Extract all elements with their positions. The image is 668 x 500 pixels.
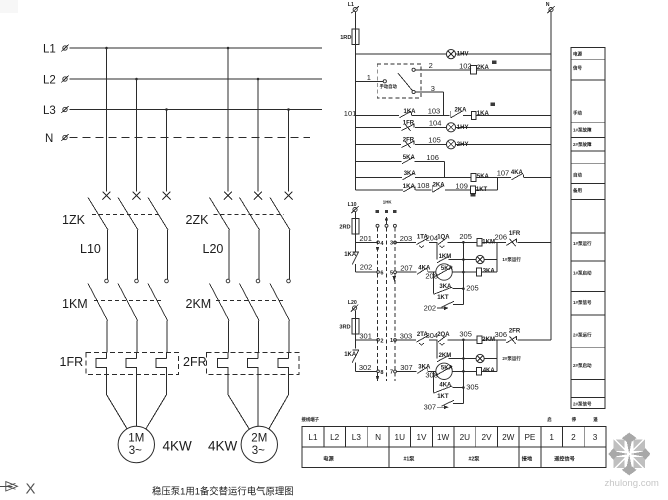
wire rung 201 — [356, 241, 377, 243]
svg-text:101: 101 — [344, 109, 357, 118]
wire rung 303 — [396, 339, 416, 341]
lamp 2HY — [446, 140, 455, 149]
svg-text:105: 105 — [428, 136, 441, 145]
contact 1KA rung 108 — [403, 186, 414, 192]
relay coil 4KA — [477, 367, 482, 375]
selector cam arrow b — [393, 276, 397, 281]
svg-text:L1: L1 — [308, 433, 318, 442]
svg-text:202: 202 — [360, 262, 373, 271]
contact 1KT time contact — [442, 400, 455, 406]
svg-text:4KW: 4KW — [163, 439, 193, 454]
svg-text:信号: 信号 — [573, 65, 582, 72]
svg-text:2KA: 2KA — [477, 65, 490, 71]
contactor coil 2KM — [477, 336, 482, 344]
svg-text:#1泵: #1泵 — [404, 454, 416, 462]
svg-text:205: 205 — [459, 232, 472, 241]
svg-text:5KA: 5KA — [441, 365, 454, 371]
svg-text:1QA: 1QA — [437, 234, 450, 240]
wire node column — [462, 340, 464, 404]
circuit breaker 2ZK — [210, 192, 293, 280]
junction node 305 — [462, 339, 465, 342]
wire rung 103 — [356, 115, 400, 117]
svg-text:2QA: 2QA — [437, 332, 450, 338]
junction node 205 — [462, 241, 465, 244]
wire rung 307 — [396, 370, 416, 372]
svg-text:3KA: 3KA — [404, 171, 417, 177]
wire lamp row — [449, 358, 477, 360]
contact 4KA rung 207 — [417, 268, 427, 274]
svg-text:1KA: 1KA — [404, 109, 417, 115]
tiny note mark 2 — [490, 102, 495, 106]
contactor coil 1KM — [477, 238, 482, 246]
svg-text:307: 307 — [424, 403, 437, 412]
wire node column — [462, 242, 464, 304]
svg-text:1U: 1U — [395, 433, 406, 442]
wire rung 203 — [396, 241, 416, 243]
lamp 1HV — [446, 50, 455, 59]
svg-text:1V: 1V — [416, 433, 427, 442]
lamp 1HY — [446, 123, 455, 132]
contact 5KA rung 106 — [402, 157, 414, 163]
svg-text:遥控信号: 遥控信号 — [554, 454, 575, 462]
pressure controller 5KA circle — [436, 363, 452, 379]
selector 1HK linkage column 1 (dashed) — [377, 227, 379, 381]
terminal L1 — [63, 46, 67, 50]
selector cam arrow c — [376, 376, 380, 381]
svg-text:103: 103 — [428, 107, 441, 116]
svg-text:1ZK: 1ZK — [62, 213, 86, 227]
wire motor 1M leads — [107, 375, 167, 430]
wire phase drops to breaker 1ZK — [106, 48, 108, 191]
wire rung 104 — [356, 126, 402, 128]
svg-text:1KT: 1KT — [437, 295, 449, 301]
junction node rung 207 — [462, 271, 465, 274]
terminal N — [63, 135, 67, 139]
terminal strip table grid — [302, 426, 606, 467]
svg-text:L2: L2 — [43, 75, 56, 87]
wire L2 bus — [70, 78, 323, 80]
wire right column — [496, 340, 498, 372]
function description table — [571, 48, 605, 409]
svg-text:X: X — [26, 481, 36, 498]
selector contact pin 1 — [394, 339, 397, 342]
wire rung 302 — [356, 370, 377, 372]
svg-text:2W: 2W — [502, 433, 515, 442]
svg-text:L1: L1 — [348, 2, 354, 8]
svg-text:107: 107 — [497, 169, 510, 178]
svg-text:1#泵故障: 1#泵故障 — [573, 127, 592, 134]
svg-text:2HY: 2HY — [457, 142, 469, 148]
selector 1HK linkage column 2 (dashed) — [386, 227, 388, 381]
thermal relay 2FR — [207, 353, 300, 375]
terminal N control — [549, 8, 553, 12]
terminal L2 — [63, 77, 67, 81]
svg-text:N: N — [375, 433, 381, 442]
wire rung voltage lamp — [356, 53, 447, 55]
svg-text:2KA: 2KA — [433, 182, 446, 188]
switch pin 3 contact — [412, 90, 415, 93]
svg-text:2V: 2V — [482, 433, 493, 442]
wire L1 to fuse 1RD — [355, 12, 357, 29]
wire bottom row — [453, 303, 463, 305]
selector contact col1 rung 201 — [377, 241, 380, 244]
pressure controller 5KA circle — [436, 264, 452, 280]
switch pin 2 contact — [412, 68, 415, 71]
svg-text:2#泵启动: 2#泵启动 — [573, 362, 592, 369]
wire rung 207 — [396, 271, 416, 273]
svg-text:2RD: 2RD — [339, 225, 350, 231]
svg-text:N: N — [45, 133, 53, 145]
svg-text:稳压泵1用1备交替运行电气原理图: 稳压泵1用1备交替运行电气原理图 — [152, 486, 294, 497]
svg-text:8: 8 — [380, 370, 383, 376]
X axis arrow — [0, 482, 18, 491]
svg-text:3: 3 — [390, 241, 393, 247]
svg-text:3KA: 3KA — [483, 269, 496, 275]
watermark logo — [608, 433, 650, 476]
switch pin 1 contact — [383, 80, 386, 83]
function table labels — [572, 51, 592, 408]
contact 2QA — [438, 336, 447, 342]
wire bottom row — [453, 402, 463, 404]
wire bus to rung 202 — [355, 264, 357, 272]
thermal relay 1FR — [86, 353, 179, 375]
svg-text:2ZK: 2ZK — [186, 213, 210, 227]
switch blade thrown to pin 3 — [398, 73, 413, 91]
svg-text:1RD: 1RD — [340, 35, 351, 41]
svg-text:zhulong.com: zhulong.com — [605, 478, 659, 489]
wire bus to rung 302 — [355, 362, 357, 371]
svg-text:1KM: 1KM — [482, 239, 495, 245]
svg-text:1FR: 1FR — [60, 355, 84, 369]
svg-text:1KT: 1KT — [476, 187, 488, 193]
svg-text:203: 203 — [400, 234, 413, 243]
svg-text:启: 启 — [547, 416, 551, 423]
wire switch pin 3 to rung 103 — [415, 91, 443, 93]
svg-text:1HY: 1HY — [457, 125, 469, 131]
svg-text:L20: L20 — [203, 242, 224, 256]
svg-text:2M: 2M — [251, 433, 267, 445]
svg-text:N: N — [546, 2, 550, 8]
wire phase drops to breaker 2ZK — [227, 48, 229, 191]
selector contact col1 rung 301 — [377, 339, 380, 342]
contact 1QA — [438, 238, 447, 244]
svg-text:3: 3 — [593, 433, 598, 442]
svg-text:2FR: 2FR — [403, 137, 415, 143]
contact 1FR NC — [402, 124, 415, 130]
svg-text:电源: 电源 — [573, 51, 582, 58]
svg-text:205: 205 — [466, 284, 479, 293]
svg-text:1: 1 — [549, 433, 554, 442]
tiny note mark — [492, 61, 497, 65]
svg-text:1M: 1M — [128, 433, 144, 445]
selector cam arrow a — [376, 247, 380, 252]
svg-text:5: 5 — [390, 270, 393, 276]
wire rung 301 — [356, 339, 377, 341]
contact 1KA rung 103 — [400, 111, 412, 117]
svg-text:2#泵运行: 2#泵运行 — [573, 332, 592, 339]
svg-text:1#泵运行: 1#泵运行 — [573, 240, 592, 247]
contact 1FR NC thermal — [506, 239, 516, 245]
svg-text:2#泵运行: 2#泵运行 — [502, 355, 521, 362]
svg-text:1: 1 — [390, 338, 393, 344]
svg-text:302: 302 — [359, 363, 372, 372]
svg-text:1#泵启动: 1#泵启动 — [573, 270, 592, 277]
svg-text:1KM: 1KM — [62, 297, 88, 311]
selector 1HK position marks — [376, 210, 380, 213]
selector switch 1SA dashed box — [377, 64, 421, 98]
svg-text:2KM: 2KM — [482, 337, 495, 343]
svg-text:3~: 3~ — [252, 445, 265, 457]
terminal L3 — [63, 107, 67, 111]
wire control left bus 101 — [355, 45, 357, 190]
wire motor 2M leads — [228, 375, 289, 430]
motor 1M — [118, 426, 154, 462]
svg-text:1KA: 1KA — [477, 111, 490, 117]
wire lower row 305 — [452, 387, 463, 389]
svg-text:308: 308 — [425, 371, 438, 380]
contactor 1KM main poles — [88, 279, 168, 353]
svg-text:遥: 遥 — [593, 416, 598, 423]
selector 1HK handle arrow — [386, 218, 388, 225]
svg-text:电源: 电源 — [323, 454, 334, 462]
junction node rung 307 — [462, 370, 465, 373]
contact 2FR NC — [402, 141, 415, 147]
svg-text:1HV: 1HV — [457, 52, 469, 58]
svg-text:1KA: 1KA — [344, 252, 357, 258]
svg-text:L2: L2 — [330, 433, 340, 442]
circuit breaker 1ZK — [88, 192, 171, 280]
svg-text:306: 306 — [495, 330, 508, 339]
lamp 2HR running indicator — [476, 354, 484, 362]
svg-text:5KA: 5KA — [441, 266, 454, 272]
svg-text:5KA: 5KA — [477, 174, 490, 180]
pump 1 control block — [396, 231, 551, 313]
svg-text:108: 108 — [417, 181, 430, 190]
svg-text:4KA: 4KA — [483, 368, 496, 374]
motor 2M — [241, 426, 277, 462]
svg-text:备用: 备用 — [572, 187, 582, 194]
svg-text:接线端子: 接线端子 — [301, 416, 320, 423]
fuse 2RD — [352, 219, 359, 235]
svg-text:206: 206 — [495, 232, 508, 241]
svg-text:接地: 接地 — [522, 454, 533, 462]
svg-text:2: 2 — [380, 338, 383, 344]
terminal L10 — [353, 208, 357, 212]
svg-text:305: 305 — [466, 382, 479, 391]
svg-text:PE: PE — [524, 433, 535, 442]
svg-text:2: 2 — [571, 433, 576, 442]
svg-text:1HK: 1HK — [383, 200, 393, 205]
svg-text:2#泵故障: 2#泵故障 — [573, 141, 592, 148]
wire rung 107 — [356, 177, 403, 179]
svg-text:2FR: 2FR — [509, 329, 521, 335]
svg-text:3KA: 3KA — [439, 284, 452, 290]
svg-text:5KA: 5KA — [403, 155, 416, 161]
svg-text:2: 2 — [429, 61, 433, 70]
wire lower row 205 — [452, 288, 463, 290]
svg-text:2#泵信号: 2#泵信号 — [573, 401, 592, 408]
wire 109 up to 107 — [497, 178, 499, 190]
svg-text:2U: 2U — [460, 433, 471, 442]
svg-text:102: 102 — [459, 61, 472, 70]
selector 1HK linkage column 3 (dashed) — [394, 227, 396, 381]
svg-text:207: 207 — [400, 264, 413, 273]
contact 2KA NC rung 103 — [449, 111, 451, 118]
svg-text:208: 208 — [425, 271, 438, 280]
wire lamp row — [449, 259, 477, 261]
svg-text:1FR: 1FR — [509, 231, 521, 237]
svg-text:停: 停 — [572, 416, 577, 423]
contact 1KT time contact — [442, 301, 455, 307]
svg-text:L3: L3 — [352, 433, 362, 442]
wire right column — [496, 242, 498, 272]
contact 4KA rung 107 — [511, 173, 523, 179]
svg-text:305: 305 — [459, 330, 472, 339]
svg-text:1KA: 1KA — [403, 184, 416, 190]
wire lamp row right — [484, 358, 497, 360]
svg-text:L3: L3 — [43, 105, 56, 117]
svg-text:301: 301 — [359, 331, 372, 340]
svg-text:L10: L10 — [80, 242, 101, 256]
contact 1TA time-delay — [417, 238, 429, 244]
selector contact pin 7 — [394, 370, 397, 373]
wire N bus (dashed) — [70, 137, 311, 139]
wire rung 105 — [356, 143, 402, 145]
contact 3KA lower — [434, 287, 453, 294]
wire branch to contact 3KA — [433, 272, 435, 294]
lamp 1HR running indicator — [476, 255, 484, 263]
contactor 2KM main poles — [210, 279, 291, 353]
wire L10 to fuse 2RD — [355, 212, 357, 218]
svg-text:1#泵运行: 1#泵运行 — [502, 256, 521, 263]
svg-text:1KT: 1KT — [437, 394, 449, 400]
contact 3KA rung 107 — [403, 173, 415, 179]
svg-text:L1: L1 — [43, 44, 56, 56]
svg-text:1#泵信号: 1#泵信号 — [573, 299, 592, 306]
svg-text:3~: 3~ — [129, 445, 142, 457]
terminal L1 control — [353, 8, 357, 12]
fuse 3RD — [352, 318, 359, 334]
wire rung 202 — [356, 271, 377, 273]
terminal strip row 2 labels — [323, 454, 575, 462]
svg-text:自动: 自动 — [573, 172, 582, 179]
selector contact pin 5 — [394, 271, 397, 274]
relay coil 1KA — [471, 111, 476, 119]
svg-text:1FR: 1FR — [403, 120, 415, 126]
pump 2 control block — [396, 329, 551, 412]
svg-text:4KA: 4KA — [439, 383, 452, 389]
selector contact pin 3 — [394, 241, 397, 244]
svg-text:202: 202 — [424, 304, 437, 313]
wire L3 bus — [70, 109, 323, 111]
relay coil 3KA — [477, 268, 482, 276]
svg-text:4KA: 4KA — [511, 170, 524, 176]
wire self-hold branch 2KM aux — [436, 340, 438, 359]
contact 2KA NC rung 109 — [431, 185, 433, 192]
svg-text:109: 109 — [455, 182, 468, 191]
contact 3KA rung 307 — [417, 367, 427, 373]
terminal strip cell labels — [308, 433, 597, 442]
svg-text:6: 6 — [380, 271, 383, 277]
wire 106 down to 107 — [444, 162, 446, 178]
wire self-hold branch 1KM aux — [436, 242, 438, 259]
contact 4KA lower — [434, 386, 453, 393]
fuse 1RD — [352, 29, 359, 45]
selector contact col1 rung 302 — [377, 370, 380, 373]
time relay coil 1KT — [471, 186, 476, 194]
svg-text:7: 7 — [390, 370, 393, 376]
contact 2TA time-delay — [417, 336, 429, 342]
wire L1 bus — [70, 47, 323, 49]
svg-text:2KA: 2KA — [455, 108, 468, 114]
wire branch to contact 4KA — [433, 371, 435, 392]
svg-text:2KM: 2KM — [186, 297, 212, 311]
svg-text:3RD: 3RD — [339, 324, 350, 330]
wire bus to rung 201 — [355, 234, 357, 251]
relay coil 5KA — [471, 174, 476, 182]
relay coil 2KA — [471, 66, 477, 74]
svg-text:1W: 1W — [437, 433, 450, 442]
selector 1HK top contacts — [376, 224, 379, 227]
wire rung 108-109 — [356, 189, 403, 191]
wire bus to switch pin 1 — [356, 80, 384, 82]
wire L20 to fuse 3RD — [355, 311, 357, 319]
svg-text:201: 201 — [359, 234, 372, 243]
selector contact col1 rung 202 — [377, 271, 380, 274]
svg-text:303: 303 — [400, 332, 413, 341]
svg-text:106: 106 — [426, 153, 439, 162]
svg-text:2FR: 2FR — [183, 355, 207, 369]
svg-text:307: 307 — [400, 363, 413, 372]
wire rung 106 — [356, 161, 402, 163]
svg-text:手动: 手动 — [573, 110, 582, 117]
wire N control bus — [550, 12, 552, 340]
wire rung 102 — [415, 69, 470, 71]
svg-text:104: 104 — [429, 119, 442, 128]
svg-text:#2泵: #2泵 — [469, 454, 481, 462]
contact 2FR NC thermal — [506, 337, 516, 343]
svg-text:手动自动: 手动自动 — [380, 83, 398, 90]
wire lamp row right — [484, 259, 497, 261]
terminal L20 — [353, 306, 357, 310]
wire bus to rung 301 — [355, 334, 357, 349]
svg-text:4KW: 4KW — [208, 439, 238, 454]
svg-text:L20: L20 — [348, 300, 357, 306]
